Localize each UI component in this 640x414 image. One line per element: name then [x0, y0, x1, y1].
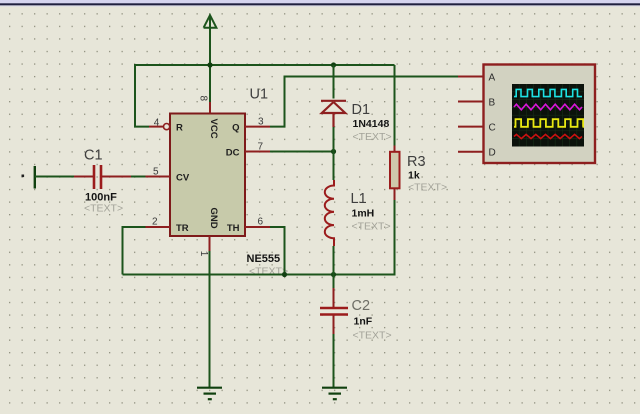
svg-text:4: 4 [154, 118, 160, 129]
svg-text:<TEXT>: <TEXT> [84, 203, 123, 215]
power symbol VCC arrow [204, 15, 217, 65]
capacitor C2 pins [333, 288, 335, 334]
U1 pin 7 DC stub [245, 151, 270, 153]
svg-text:R: R [176, 122, 183, 133]
junction DC / D1 / L1 [331, 149, 336, 154]
svg-text:CV: CV [176, 172, 190, 183]
IC U1 body [170, 114, 245, 237]
wire L1 to bottom rail [333, 246, 335, 275]
svg-text:GND: GND [208, 208, 219, 229]
svg-text:1nF: 1nF [354, 316, 373, 328]
svg-text:R3: R3 [407, 154, 426, 170]
svg-text:D: D [489, 148, 496, 159]
svg-text:TR: TR [176, 223, 189, 234]
svg-text:1mH: 1mH [352, 208, 375, 220]
capacitor C1 plates [94, 165, 101, 189]
wire rail right drop to R3 [394, 65, 396, 146]
wire C1 to U1 pin 5 [131, 176, 146, 178]
junction C2 / bottom rail [331, 272, 336, 277]
waveform A cyan [514, 89, 582, 96]
waveform C yellow [514, 119, 583, 127]
svg-text:<TEXT>: <TEXT> [408, 182, 447, 194]
svg-text:<TEXT>: <TEXT> [352, 221, 391, 233]
svg-text:2: 2 [152, 217, 158, 228]
svg-text:1k: 1k [408, 170, 420, 182]
svg-text:5: 5 [153, 167, 159, 178]
oscilloscope channel A pin [458, 75, 484, 77]
oscilloscope channel C pin [458, 126, 484, 128]
U1 pin 2 TR stub [146, 226, 171, 228]
ground symbol 2 [322, 388, 347, 400]
junction power rail [207, 62, 212, 67]
capacitor C2 plates [320, 308, 348, 315]
svg-text:<TEXT>: <TEXT> [353, 330, 392, 342]
U1 pin 4 R stub with bubble [149, 126, 164, 128]
svg-text:3: 3 [258, 117, 264, 128]
wire node to L1 [333, 152, 335, 181]
junction TH / bottom rail [282, 272, 287, 277]
svg-text:C2: C2 [352, 298, 371, 314]
wire GND pin to ground [209, 251, 211, 387]
svg-text:D1: D1 [352, 102, 371, 118]
wire bottom rail to C2 [333, 275, 335, 289]
U1 pin 1 GND stub [209, 236, 211, 251]
wire VCC riser to U1 pin 8 [209, 65, 211, 102]
U1 pin 3 Q stub [245, 126, 270, 128]
svg-text:Q: Q [232, 122, 239, 133]
svg-text:L1: L1 [351, 191, 367, 207]
ground symbol 1 [197, 388, 222, 400]
waveform B magenta [514, 104, 582, 110]
U1 pin 5 CV stub [146, 176, 171, 178]
svg-text:U1: U1 [250, 87, 269, 103]
svg-text:C1: C1 [84, 148, 103, 164]
capacitor C1 pins [74, 176, 131, 178]
wire TR loop down [123, 227, 146, 275]
diode D1 [321, 101, 346, 127]
junction rail / D1 [331, 62, 336, 67]
wire bottom rail [123, 200, 395, 275]
resistor R3 pins [394, 146, 396, 201]
inductor L1 [325, 180, 334, 246]
svg-text:7: 7 [258, 142, 264, 153]
oscilloscope channel D pin [458, 151, 484, 153]
oscilloscope body [484, 65, 596, 164]
oscilloscope channel B pin [458, 101, 484, 103]
wire C2 to ground [333, 334, 335, 387]
wire top VCC rail [135, 64, 395, 66]
svg-text:A: A [489, 72, 496, 83]
wire Q to scope A [270, 76, 458, 126]
svg-text:1: 1 [198, 251, 209, 257]
svg-text:<TEXT>: <TEXT> [353, 131, 392, 143]
svg-text:TH: TH [227, 223, 240, 234]
oscilloscope screen [512, 84, 584, 147]
svg-text:C: C [489, 123, 496, 134]
resistor R3 body [390, 152, 400, 189]
svg-text:B: B [489, 98, 496, 109]
wire input terminal to C1 [35, 176, 74, 178]
svg-text:VCC: VCC [208, 119, 219, 139]
svg-text:1N4148: 1N4148 [353, 118, 390, 130]
wire D1 anode to node [333, 127, 335, 152]
svg-text:6: 6 [258, 217, 264, 228]
wire D1 top from rail [333, 65, 335, 99]
wire left drop from rail to pin 4 [135, 64, 149, 127]
svg-text:DC: DC [226, 147, 240, 158]
svg-text:NE555: NE555 [247, 253, 281, 265]
wire DC to D1 bottom node [270, 151, 334, 153]
svg-text:8: 8 [197, 96, 208, 102]
window title strip [0, 0, 640, 4]
wire TH down to bottom rail [270, 227, 285, 275]
U1 pin 8 VCC stub [209, 102, 211, 114]
node input terminal [34, 166, 36, 189]
U1 pin 6 TH stub [245, 226, 270, 228]
waveform D red [514, 134, 582, 138]
